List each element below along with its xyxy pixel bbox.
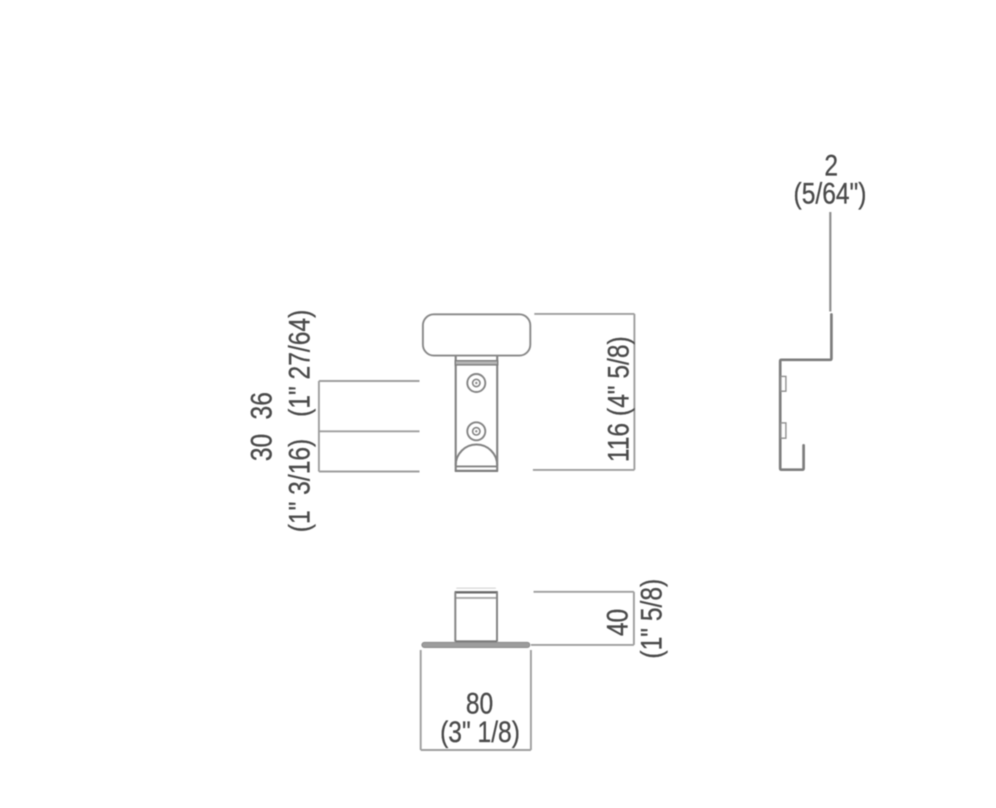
fold line (455, 597, 497, 599)
dim extension top (534, 313, 634, 315)
stem left edge (455, 356, 457, 472)
screw hole upper: inner (473, 379, 480, 386)
arm left edge (454, 592, 456, 641)
dim vertical line (318, 381, 320, 472)
40 dim bottom extension (531, 644, 634, 646)
stem bottom edge (455, 470, 498, 472)
plate top edge (dark) (455, 591, 498, 593)
dim vertical (633, 314, 635, 470)
dim extension line top (upper screw) (319, 380, 420, 382)
svg-text:(5/64"): (5/64") (794, 176, 867, 210)
40 dim vertical (633, 592, 635, 645)
80 dim right extension (530, 650, 532, 750)
screw hole lower: inner (473, 428, 480, 435)
plate edge line above bar (455, 640, 497, 642)
screw boss tab upper (781, 376, 786, 391)
hook head (rounded cap, front view) (423, 314, 530, 355)
screw hole lower: outer (467, 422, 485, 440)
screw hole upper: outer (467, 374, 485, 392)
svg-text:40: 40 (600, 609, 634, 636)
80 dim left extension (420, 650, 422, 750)
faint wall line (456, 587, 496, 589)
screw hole lower: center dot (475, 430, 477, 432)
screw hole upper: center dot (475, 382, 477, 384)
80 dim bottom line (421, 749, 531, 751)
bottom arch (456, 445, 498, 466)
dim extension bottom (533, 469, 635, 471)
svg-text:(1" 5/8): (1" 5/8) (634, 579, 668, 659)
dim extension line bottom (plate bottom) (319, 471, 420, 473)
leader line (829, 212, 831, 312)
40 dim top extension (534, 591, 634, 593)
svg-text:36: 36 (244, 392, 278, 419)
svg-text:116 (4" 5/8): 116 (4" 5/8) (601, 336, 635, 462)
stem right edge (496, 356, 498, 472)
arm right edge (496, 592, 498, 641)
svg-text:(3" 1/8): (3" 1/8) (440, 715, 520, 749)
stem lower line (456, 465, 498, 467)
fold band below head (455, 361, 498, 365)
side profile (780, 315, 831, 470)
dim extension line middle (lower screw) (319, 430, 420, 432)
svg-text:(1" 3/16): (1" 3/16) (282, 439, 316, 532)
svg-text:(1" 27/64): (1" 27/64) (282, 310, 316, 417)
svg-text:30: 30 (244, 434, 278, 461)
screw boss tab lower (781, 423, 786, 438)
head bar (top view) (422, 642, 530, 647)
